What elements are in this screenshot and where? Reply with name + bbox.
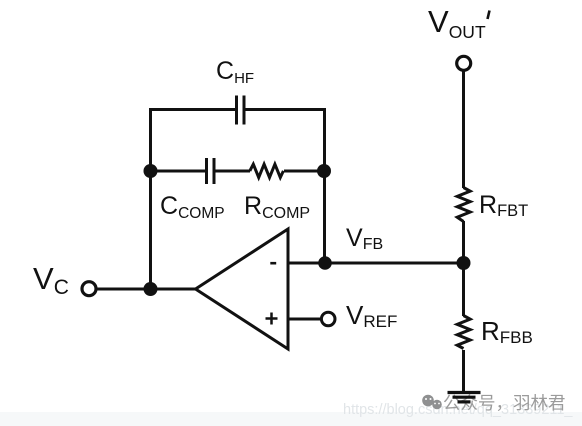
node: feedback divider junction <box>457 256 471 270</box>
terminal VC <box>82 282 96 296</box>
wire: top feedback horizontal right of CHF <box>245 108 326 111</box>
wire: V_C terminal to op-amp apex <box>96 288 196 291</box>
resistor RFBB <box>457 316 470 349</box>
wire: inner loop right segment <box>284 170 324 173</box>
wire: RFBT to node <box>462 221 465 263</box>
watermark wechat icon <box>422 395 442 410</box>
node: junction inverting input <box>318 256 332 270</box>
label VOUT prime tick <box>488 11 490 20</box>
ground <box>448 393 481 402</box>
wire: inner loop left segment <box>150 170 206 173</box>
resistor RCOMP <box>250 164 284 177</box>
terminal VREF <box>321 312 335 326</box>
wire: inverting input / V_FB net <box>288 262 464 265</box>
terminal VOUT <box>457 56 471 70</box>
wire: top feedback horizontal left of CHF <box>149 108 236 111</box>
wire: non-inverting input <box>288 318 322 321</box>
node: junction right inner loop <box>317 164 331 178</box>
node: junction left inner loop <box>144 164 158 178</box>
wire: VOUT to RFBT <box>462 72 465 189</box>
wire: left feedback vertical <box>149 108 152 289</box>
capacitor CCOMP <box>207 158 215 184</box>
wire: RFBB to ground <box>462 350 465 391</box>
node: junction V_C wire <box>144 282 158 296</box>
op-amp minus pin mark <box>270 262 276 265</box>
capacitor CHF <box>237 96 245 125</box>
op-amp U1 <box>196 229 289 349</box>
wire: inner loop middle segment <box>214 170 250 173</box>
bottom gray strip <box>0 412 582 426</box>
op-amp plus pin mark <box>266 313 278 325</box>
resistor RFBT <box>457 188 470 222</box>
wire: node to RFBB <box>462 263 465 316</box>
wire: right feedback vertical <box>323 108 326 263</box>
